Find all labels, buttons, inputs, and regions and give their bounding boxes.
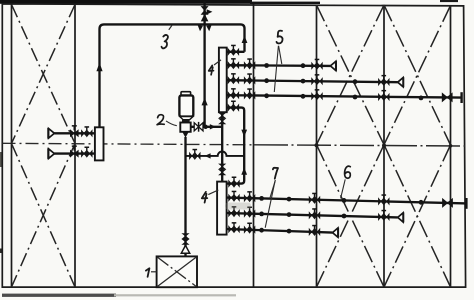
- arrow up on bypass: [241, 167, 247, 174]
- second valves at upper pipes near boundary: [244, 58, 255, 69]
- stacked valve on tank riser: [181, 233, 189, 245]
- label 6: [345, 166, 351, 178]
- scan smudge: [225, 203, 251, 210]
- double valve on drain line: [189, 149, 200, 160]
- scan artifact: left edge marks: [0, 152, 2, 167]
- horn outlet pipe 5b: [398, 78, 403, 87]
- valve row5 upper: [228, 101, 239, 112]
- pump 2 outlet line: [191, 126, 222, 128]
- node knots at field corners on axis: [315, 143, 319, 147]
- horn outlet pipe 5a: [330, 61, 335, 70]
- divider valves on pipe 7b: [309, 208, 320, 219]
- label 5: [277, 31, 283, 44]
- watering pipe 7b: [227, 213, 398, 217]
- field boundary vertical x=450.5: [450, 6, 452, 288]
- double valve on left pipe upper: [81, 126, 92, 137]
- arrow up on left riser: [96, 63, 102, 72]
- arrow up on outlet riser above junction: [201, 14, 209, 22]
- left manifold (4): [95, 127, 104, 160]
- watering pipe 5a: [227, 64, 331, 67]
- field boundary vertical x=316.5: [316, 5, 318, 287]
- upper distribution manifold 4: [219, 48, 227, 113]
- field diagonals left upper cell: [12, 5, 76, 144]
- valve on lower manifold row1: [228, 177, 239, 188]
- field diagonals right cell A upper: [317, 5, 385, 145]
- horizontal center axis (dash-dot): [3, 143, 255, 145]
- field boundary vertical x=11.5: [11, 4, 13, 287]
- field diagonals right cell B lower: [384, 145, 451, 287]
- watering pipe 5c: [227, 95, 462, 97]
- watering pipe 5b: [227, 80, 398, 82]
- bypass: row5 stub, vertical drop to lower manifold row1: [227, 108, 245, 184]
- left watering pipe lower: [49, 152, 95, 154]
- tank 1: [157, 256, 197, 287]
- end bar pipe 7a at border: [465, 198, 467, 209]
- outlined arrow above tank: [181, 245, 189, 253]
- vertical link: upper manifold bottom to pump tee to lower manifold top: [221, 112, 223, 181]
- scan artifact: top black bar: [0, 0, 252, 4]
- field boundary vertical x=253.5: [253, 4, 255, 287]
- watering pipe 7a: [227, 198, 467, 204]
- valve on outlet riser at top border: [201, 6, 209, 15]
- junction dots on pipe 5c: [264, 93, 269, 98]
- label 2: [157, 115, 164, 125]
- junction dots on pipe 7b: [259, 212, 264, 217]
- junction dot at riser/outlet: [203, 125, 207, 129]
- junction dots on pipe 5b: [264, 78, 269, 83]
- stacked valve above lower manifold: [218, 164, 226, 176]
- arrow left on drain line: [205, 153, 211, 158]
- divider valves on pipe 7c: [309, 225, 320, 236]
- junction dots on pipe 7c: [259, 228, 264, 233]
- wire: riser from junction down to pump outlet: [203, 24, 205, 126]
- divider valves on pipe 5a: [311, 59, 322, 70]
- double valve on left pipe lower: [81, 147, 92, 158]
- label 3: [162, 35, 168, 48]
- divider valves on pipe 7a: [309, 193, 320, 204]
- horn outlet left upper: [49, 129, 55, 139]
- scan artifact: bottom gray streak: [2, 294, 116, 297]
- label 4 lower: [202, 192, 208, 203]
- junction dots on pipe 5a: [264, 63, 269, 68]
- drain line from riser to bypass with crossover jog: [186, 152, 245, 156]
- second valves at lower pipes near boundary: [244, 191, 255, 202]
- label 4 upper: [209, 65, 214, 74]
- valves at lower pipes near manifold: [228, 191, 239, 202]
- field boundary vertical x=384: [383, 5, 385, 287]
- junction dots on pipe 7a: [259, 196, 264, 201]
- lower distribution manifold 4: [217, 182, 227, 235]
- field diagonals right cell A lower: [317, 145, 385, 287]
- watering pipe 7c: [227, 229, 333, 233]
- valve row1 upper: [228, 45, 239, 56]
- label 1: [146, 268, 150, 277]
- arrow right on outlet: [210, 124, 216, 129]
- arrow up on down leg of pipe 3: [242, 36, 248, 43]
- pump 2 body: [181, 92, 191, 96]
- horn outlet pipe 7b: [398, 213, 403, 222]
- left watering pipe upper: [49, 132, 95, 134]
- horn outlet left lower: [49, 149, 55, 159]
- valve with stem on left pipe lower: [70, 145, 79, 157]
- arrow up on pump riser: [202, 98, 208, 106]
- label 7: [273, 168, 278, 179]
- converging arrows below junction: [198, 25, 203, 31]
- valve with stem on left pipe upper: [70, 125, 79, 137]
- tank riser from pump down to tank 1: [184, 137, 186, 256]
- end bar pipe 5c at border: [460, 92, 462, 103]
- divider valves on pipe 5b: [311, 74, 322, 85]
- flag handle on top valve: [207, 9, 213, 14]
- valves at upper pipes near manifold: [228, 58, 239, 69]
- main pipe 3: riser from left manifold, top run, down leg to upper manifold: [100, 24, 245, 126]
- stacked valve above pump tee: [218, 113, 226, 125]
- field diagonals left lower cell: [12, 144, 76, 288]
- arrow down on bypass: [241, 130, 247, 137]
- field diagonals right cell B upper: [384, 5, 451, 145]
- wire: outlet riser through top border: [203, 1, 205, 24]
- outlined valve at pump outlet: [194, 123, 203, 131]
- horn outlet pipe 7c: [333, 228, 338, 237]
- field boundary vertical x=75: [74, 4, 76, 287]
- stub row1 upper manifold: [227, 51, 245, 53]
- divider valves on pipe 5c: [311, 89, 322, 100]
